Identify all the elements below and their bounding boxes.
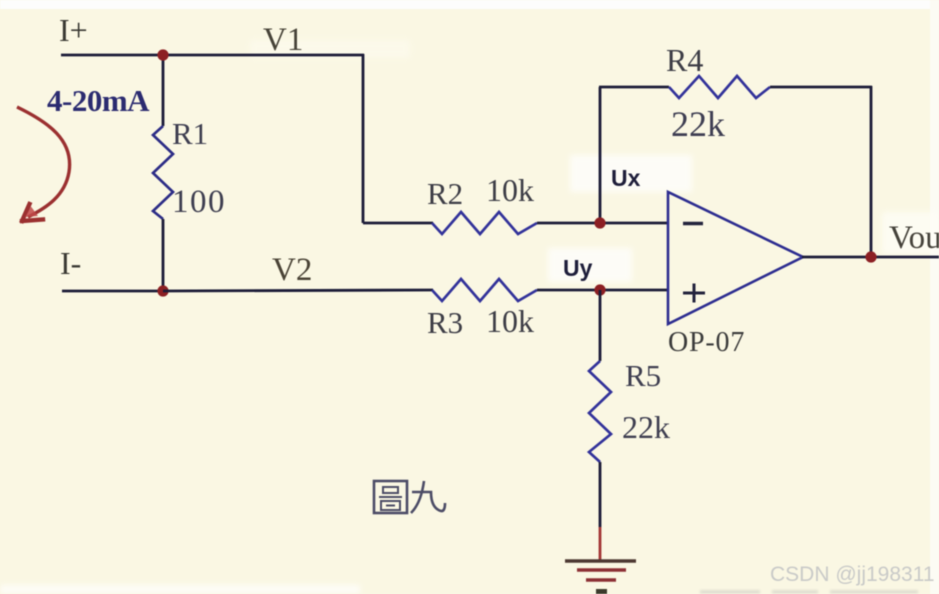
node A junction I+/V1/R1	[157, 49, 168, 60]
node Vx	[594, 217, 605, 228]
svg-text:22k: 22k	[622, 409, 670, 445]
resistor R5	[589, 361, 611, 462]
wire feedback: top left run	[599, 86, 669, 89]
wire node Vx to op-amp inverting input	[600, 222, 668, 225]
wire feedback: down to output node	[870, 86, 873, 257]
wire node Vy to op-amp non-inverting input	[600, 289, 668, 292]
resistor R2	[432, 212, 537, 234]
svg-text:V1: V1	[263, 22, 303, 58]
wire R5 to ground (dark part)	[599, 462, 602, 527]
wire V2 net	[163, 290, 433, 291]
wire R5 top lead	[599, 290, 602, 361]
resistor R4	[669, 76, 770, 98]
op-amp inverting input minus sign	[683, 222, 703, 225]
svg-text:V2: V2	[272, 252, 312, 288]
caption 圖九	[374, 481, 445, 513]
current arrow 4-20mA	[17, 107, 70, 221]
svg-text:R1: R1	[172, 116, 208, 151]
svg-text:OP-07: OP-07	[668, 327, 745, 358]
watermark bottom remnants	[700, 590, 918, 594]
svg-text:CSDN @jj198311: CSDN @jj198311	[770, 563, 935, 586]
wire V1 net: horizontal into R2	[363, 222, 433, 225]
resistor R3	[432, 279, 537, 301]
wire R3 to node Vy	[537, 289, 600, 292]
node Vy	[594, 284, 605, 295]
wire I- lead	[62, 290, 163, 293]
svg-text:4-20mA: 4-20mA	[47, 83, 150, 118]
ground	[565, 561, 636, 594]
svg-text:Uy: Uy	[563, 255, 593, 281]
svg-text:R5: R5	[625, 358, 661, 393]
wire I+ lead	[61, 54, 163, 57]
svg-text:I+: I+	[59, 12, 88, 48]
wire R5 to ground (red part)	[599, 527, 602, 560]
wire feedback: top right run	[770, 86, 872, 89]
wire V1 net: vertical drop	[362, 54, 365, 223]
op-amp U1	[668, 192, 803, 324]
svg-text:22k: 22k	[671, 104, 725, 144]
resistor R1	[153, 126, 173, 219]
op-amp non-inverting input plus sign	[683, 284, 705, 303]
wire V1 net: node A to corner	[163, 54, 364, 57]
svg-text:10k: 10k	[486, 303, 534, 339]
svg-text:Vou: Vou	[889, 220, 939, 256]
wire op-amp output	[802, 256, 939, 259]
svg-text:10k: 10k	[486, 172, 534, 208]
svg-text:Ux: Ux	[611, 165, 641, 191]
svg-text:R4: R4	[666, 42, 703, 78]
node Vout junction	[865, 251, 876, 262]
node B junction I-/V2/R1	[157, 285, 168, 296]
wire feedback: node Vx up	[599, 87, 602, 223]
svg-text:R3: R3	[427, 305, 463, 340]
wire R2 to node Vx	[537, 222, 600, 225]
wire R1 bottom lead	[162, 219, 165, 291]
svg-text:R2: R2	[427, 176, 463, 211]
svg-text:100: 100	[172, 184, 226, 220]
svg-text:I-: I-	[60, 245, 81, 281]
wire R1 top lead	[162, 55, 165, 126]
